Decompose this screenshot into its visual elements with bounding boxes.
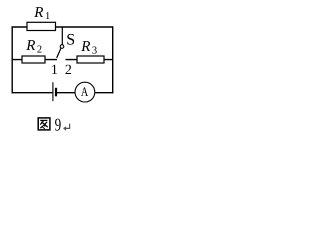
node 2 label: [65, 63, 72, 78]
svg-text:R: R: [33, 5, 43, 21]
svg-text:R: R: [80, 39, 90, 55]
resistor R1: [27, 22, 56, 30]
svg-text:9: 9: [55, 115, 62, 135]
battery short plate: [55, 88, 57, 97]
svg-text:1: 1: [51, 63, 58, 78]
wire middle rung left (rail to contact 1): [12, 59, 57, 61]
wire bottom rail right (battery to right rail, ammeter overlays): [56, 92, 113, 94]
switch S pivot circle: [60, 45, 64, 49]
resistor R3: [77, 56, 104, 63]
ammeter A: [75, 82, 95, 102]
svg-text:3: 3: [92, 46, 97, 57]
wire left rail: [11, 26, 13, 93]
switch S lever: [57, 48, 61, 58]
node 1 label: [51, 63, 58, 78]
caption text 9: [55, 115, 62, 135]
wire right rail: [112, 26, 114, 93]
wire top rail: [12, 26, 114, 28]
label R2: [25, 38, 42, 55]
label R1: [33, 5, 50, 22]
wire bottom rail left (to battery): [12, 92, 53, 94]
resistor R2: [22, 56, 45, 63]
svg-text:R: R: [25, 38, 35, 54]
svg-text:1: 1: [45, 11, 50, 22]
label S: [66, 32, 75, 49]
battery long plate: [52, 82, 54, 101]
label R3: [80, 39, 97, 56]
svg-text:S: S: [66, 32, 75, 49]
svg-text:A: A: [81, 84, 89, 99]
paragraph return mark: [63, 124, 70, 131]
svg-text:2: 2: [37, 45, 42, 56]
wire middle rung right (contact 2 to right rail): [66, 59, 113, 61]
svg-text:2: 2: [65, 63, 72, 78]
wire switch drop from top rail: [61, 27, 63, 45]
caption character 图: [38, 118, 50, 130]
